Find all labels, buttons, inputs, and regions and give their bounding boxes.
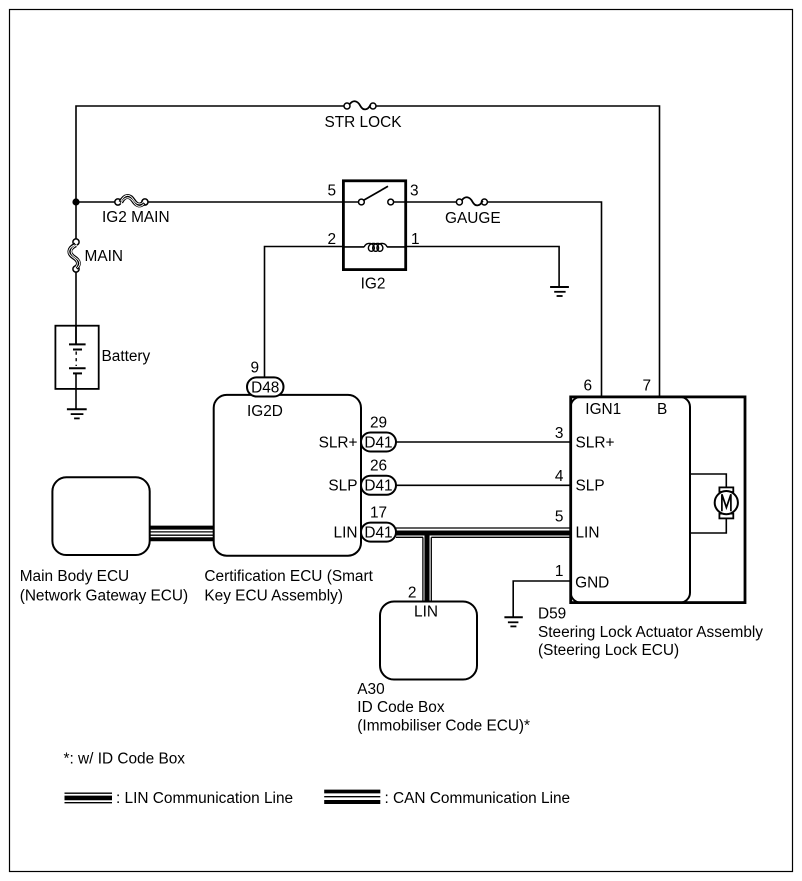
svg-text:5: 5 bbox=[555, 509, 564, 526]
svg-text:MAIN: MAIN bbox=[85, 248, 123, 265]
svg-text:17: 17 bbox=[370, 504, 387, 521]
fuse GAUGE bbox=[456, 197, 487, 205]
svg-text:*: w/ ID Code Box: *: w/ ID Code Box bbox=[64, 751, 186, 768]
svg-text:D41: D41 bbox=[364, 434, 392, 451]
svg-text:D41: D41 bbox=[364, 478, 392, 495]
ground (relay coil) bbox=[550, 287, 569, 296]
wire SLR+ bbox=[396, 441, 571, 443]
connector D41 (SLR+) bbox=[361, 433, 396, 452]
svg-text:Steering Lock Actuator Assembl: Steering Lock Actuator Assembly bbox=[538, 624, 763, 641]
svg-text:Certification ECU (Smart: Certification ECU (Smart bbox=[204, 568, 373, 585]
svg-text:5: 5 bbox=[327, 183, 336, 200]
Steering Lock Actuator outer box bbox=[571, 397, 745, 603]
svg-text:Key ECU Assembly): Key ECU Assembly) bbox=[204, 588, 343, 605]
svg-text:SLP: SLP bbox=[328, 477, 357, 494]
ground (battery) bbox=[67, 409, 87, 418]
svg-text:: LIN Communication Line: : LIN Communication Line bbox=[116, 790, 293, 807]
wire MAIN vertical bbox=[75, 202, 77, 344]
svg-text:SLP: SLP bbox=[576, 477, 605, 494]
battery B1 bbox=[55, 326, 98, 389]
wire IG2 MAIN row bbox=[76, 201, 343, 203]
connector D41 (LIN) bbox=[361, 523, 396, 542]
wire GND to ground bbox=[513, 581, 571, 617]
wire CAN communication line (between ECUs) bbox=[150, 528, 214, 540]
wire top bus from node A up and across to B pin bbox=[76, 106, 660, 396]
wire SLP bbox=[396, 484, 571, 486]
svg-text:SLR+: SLR+ bbox=[319, 435, 358, 452]
fusible link MAIN bbox=[69, 239, 80, 272]
ID code box A30 bbox=[380, 602, 477, 680]
wire relay pin2 to D48 bbox=[265, 247, 344, 378]
svg-text:IGN1: IGN1 bbox=[585, 401, 621, 418]
relay coil bbox=[343, 243, 405, 251]
svg-text:D48: D48 bbox=[251, 379, 279, 396]
svg-text:1: 1 bbox=[555, 563, 564, 580]
svg-text:6: 6 bbox=[583, 377, 592, 394]
svg-text:(Immobiliser Code ECU)*: (Immobiliser Code ECU)* bbox=[357, 717, 530, 734]
svg-text:4: 4 bbox=[555, 468, 564, 485]
svg-text:26: 26 bbox=[370, 457, 387, 474]
svg-text:(Steering Lock ECU): (Steering Lock ECU) bbox=[538, 642, 679, 659]
svg-text:2: 2 bbox=[327, 231, 336, 248]
wire relay pin3 to GAUGE to pin6 bbox=[406, 202, 602, 396]
legend LIN symbol bbox=[65, 793, 113, 803]
ground (actuator) bbox=[504, 617, 522, 626]
svg-text:: CAN Communication Line: : CAN Communication Line bbox=[385, 790, 571, 807]
Steering Lock ECU inner rounded box bbox=[571, 397, 690, 603]
wire motor loop bbox=[690, 474, 726, 533]
wire battery to ground bbox=[75, 373, 77, 409]
svg-text:ID Code Box: ID Code Box bbox=[357, 699, 445, 716]
svg-text:IG2D: IG2D bbox=[247, 403, 283, 420]
svg-text:Battery: Battery bbox=[102, 348, 151, 365]
motor M1 bbox=[715, 487, 738, 518]
wire LIN branch down to A30 bbox=[423, 531, 431, 602]
svg-text:7: 7 bbox=[642, 377, 651, 394]
svg-text:1: 1 bbox=[411, 231, 420, 248]
node A junction dot bbox=[72, 198, 79, 205]
svg-text:A30: A30 bbox=[357, 681, 384, 698]
svg-text:3: 3 bbox=[555, 425, 564, 442]
Main Body ECU box bbox=[52, 477, 149, 555]
connector D41 (SLP) bbox=[361, 476, 396, 495]
svg-text:STR LOCK: STR LOCK bbox=[325, 114, 403, 131]
svg-text:LIN: LIN bbox=[414, 604, 438, 621]
svg-text:(Network Gateway ECU): (Network Gateway ECU) bbox=[20, 588, 188, 605]
svg-text:B: B bbox=[657, 401, 667, 418]
wire relay pin1 to ground bbox=[406, 247, 559, 287]
svg-text:IG2: IG2 bbox=[361, 276, 386, 293]
svg-text:SLR+: SLR+ bbox=[576, 435, 615, 452]
svg-text:Main Body ECU: Main Body ECU bbox=[20, 568, 130, 585]
svg-text:9: 9 bbox=[250, 360, 259, 377]
svg-text:GAUGE: GAUGE bbox=[445, 210, 501, 227]
legend CAN symbol bbox=[324, 792, 380, 803]
relay IG2 box bbox=[343, 181, 405, 270]
svg-text:IG2 MAIN: IG2 MAIN bbox=[102, 209, 170, 226]
svg-text:3: 3 bbox=[410, 183, 419, 200]
fusible link IG2 MAIN bbox=[115, 195, 148, 206]
relay switch contacts bbox=[343, 186, 405, 205]
fuse STR LOCK bbox=[344, 101, 376, 109]
svg-text:LIN: LIN bbox=[334, 524, 358, 541]
svg-text:D59: D59 bbox=[538, 606, 566, 623]
svg-text:D41: D41 bbox=[364, 524, 392, 541]
svg-text:LIN: LIN bbox=[576, 524, 600, 541]
svg-text:GND: GND bbox=[575, 574, 609, 591]
svg-text:2: 2 bbox=[408, 584, 417, 601]
connector D48 bbox=[247, 377, 284, 396]
Certification ECU box bbox=[214, 395, 361, 556]
wire LIN communication line (horizontal) bbox=[396, 528, 571, 537]
svg-text:29: 29 bbox=[370, 415, 387, 432]
